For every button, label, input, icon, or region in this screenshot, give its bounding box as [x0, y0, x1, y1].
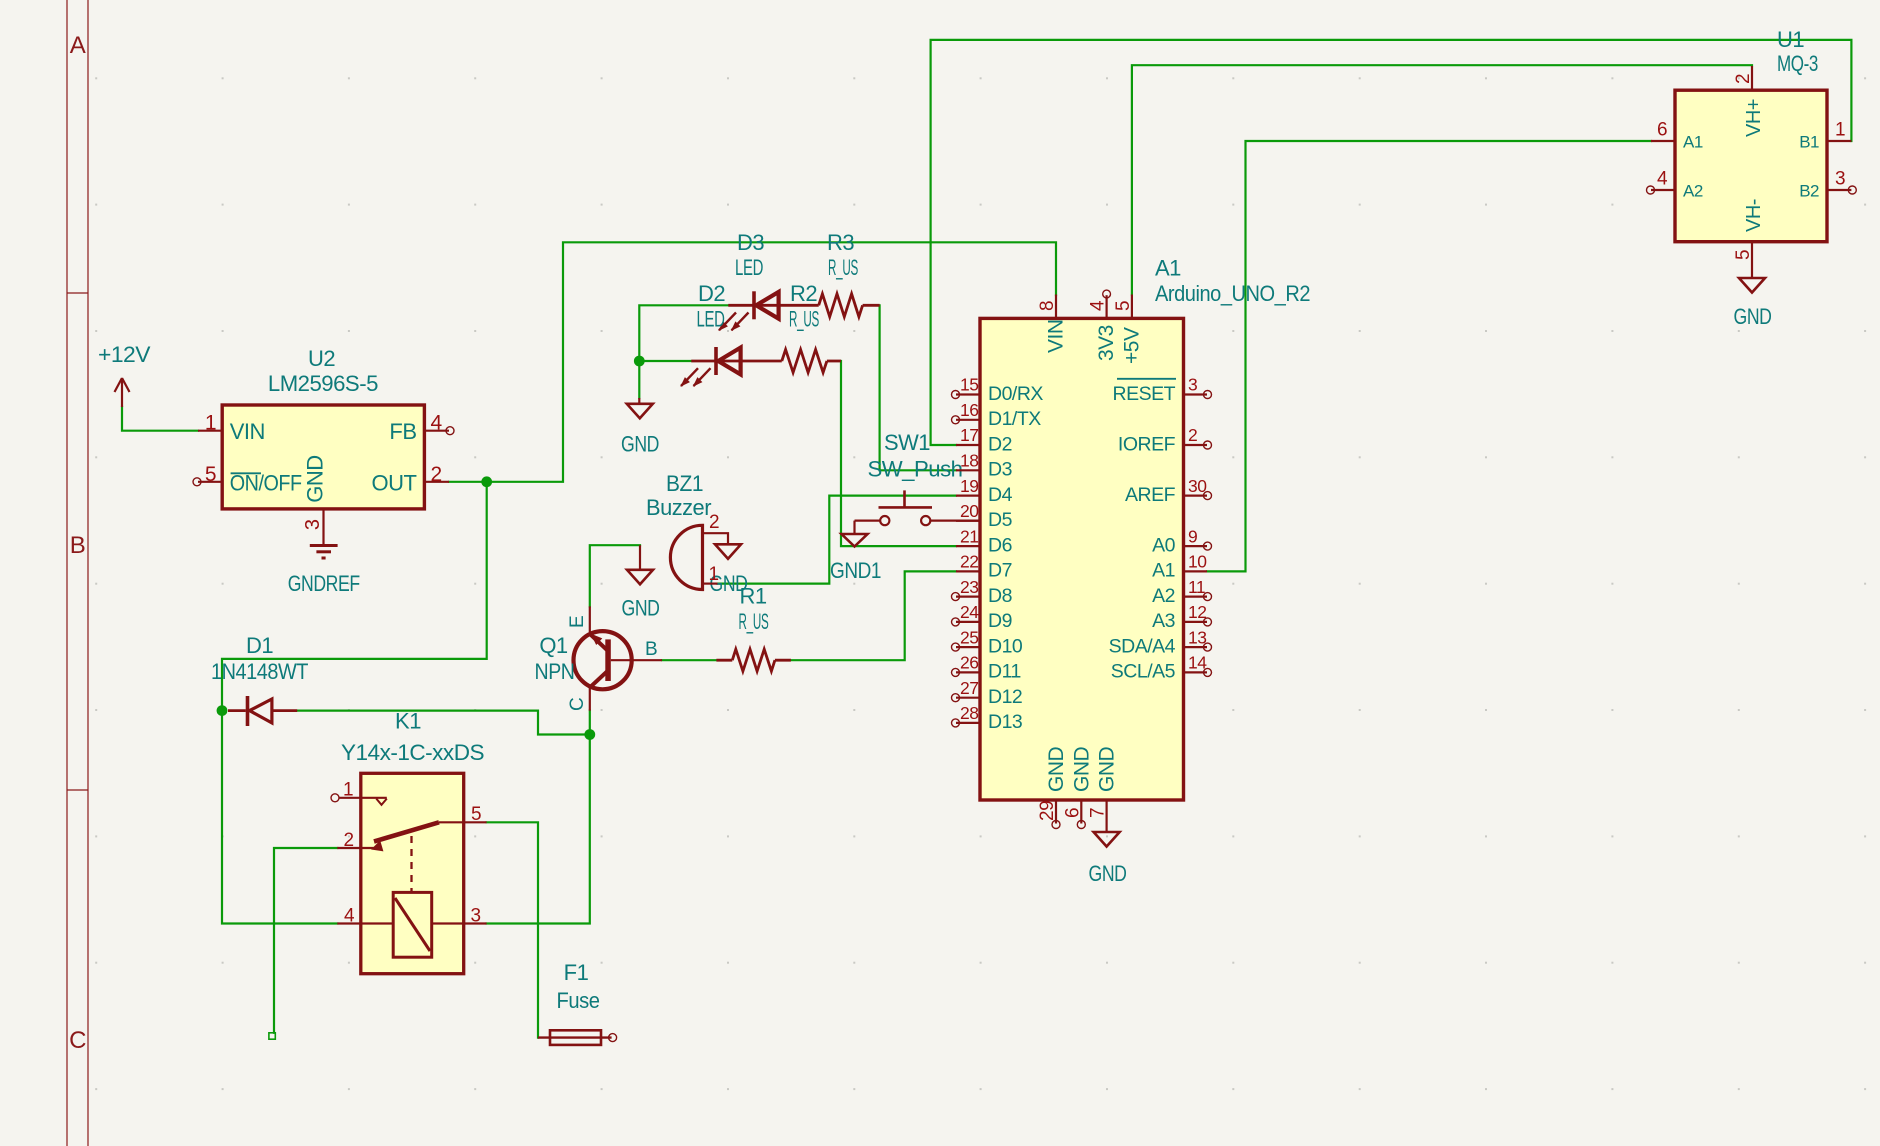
- Arduino pin 26 D11: [952, 653, 1021, 683]
- BZ1 pin 2 to ground: [703, 512, 729, 544]
- ground GND at Q1 emitter: [622, 545, 660, 620]
- svg-text:GNDREF: GNDREF: [288, 571, 360, 596]
- svg-text:2: 2: [343, 830, 353, 851]
- svg-text:D4: D4: [988, 484, 1013, 506]
- svg-text:NPN: NPN: [535, 659, 575, 684]
- Arduino pin 9 A0: [1152, 526, 1211, 556]
- K1 pin 2 + armature lever: [337, 822, 439, 892]
- svg-text:4: 4: [431, 412, 443, 435]
- svg-text:U2: U2: [308, 346, 335, 371]
- switch SW1 SW_Push: [855, 430, 981, 525]
- K1 pin 1: [331, 780, 387, 805]
- wire LED D2 row left: [639, 360, 691, 362]
- wire Q1 base to R1: [662, 659, 716, 661]
- Arduino pin 4 3V3 top: [1088, 290, 1118, 361]
- svg-text:14: 14: [1188, 653, 1207, 673]
- svg-text:SW1: SW1: [884, 430, 930, 455]
- svg-text:30: 30: [1188, 476, 1207, 496]
- wire R2 to Arduino D6: [841, 361, 956, 546]
- svg-text:1: 1: [1835, 120, 1845, 141]
- svg-text:A1: A1: [1152, 560, 1175, 582]
- svg-text:VIN: VIN: [1045, 319, 1068, 353]
- svg-text:K1: K1: [395, 709, 421, 734]
- Arduino pin 10 A1: [1152, 552, 1207, 582]
- svg-text:28: 28: [960, 703, 978, 723]
- svg-text:2: 2: [709, 512, 719, 533]
- svg-text:12: 12: [1188, 602, 1206, 622]
- svg-text:24: 24: [960, 602, 979, 622]
- wire relay pin 2 stub (dangling): [269, 848, 337, 1039]
- svg-text:25: 25: [960, 627, 978, 647]
- svg-text:A: A: [70, 32, 86, 59]
- svg-text:D5: D5: [988, 509, 1013, 531]
- junction at Q1 collector node: [584, 729, 595, 740]
- svg-text:D3: D3: [988, 459, 1012, 481]
- svg-text:3: 3: [470, 906, 480, 927]
- U2 pin 5 ON/OFF: [193, 463, 302, 496]
- svg-text:5: 5: [205, 463, 216, 486]
- MQ-3 pin 5 VH- bottom: [1733, 199, 1765, 260]
- svg-text:22: 22: [960, 552, 978, 572]
- svg-text:3: 3: [1835, 169, 1845, 190]
- svg-text:15: 15: [960, 375, 978, 395]
- regulator U2 LM2596S-5: [222, 346, 424, 509]
- Arduino pin 13 SDA/A4: [1109, 627, 1212, 657]
- MQ-3 pin 6 A1: [1651, 120, 1703, 152]
- svg-text:C: C: [567, 698, 588, 711]
- Arduino pin 27 D12: [952, 678, 1023, 708]
- svg-text:GND: GND: [1045, 747, 1068, 793]
- svg-text:3: 3: [302, 519, 324, 530]
- svg-text:SW_Push: SW_Push: [868, 457, 963, 482]
- MQ-3 pin 2 VH+ top: [1733, 66, 1765, 137]
- svg-text:B: B: [70, 532, 86, 559]
- Arduino pin 12 A3: [1152, 602, 1211, 632]
- svg-text:D1/TX: D1/TX: [988, 408, 1041, 430]
- svg-text:Fuse: Fuse: [557, 988, 600, 1013]
- Arduino pin 16 D1/TX: [952, 400, 1042, 430]
- svg-text:19: 19: [960, 476, 978, 496]
- Arduino pin 15 D0/RX: [952, 375, 1044, 405]
- Arduino pin 30 AREF: [1125, 476, 1212, 506]
- svg-text:6: 6: [1062, 808, 1083, 818]
- Arduino pin 21 D6: [956, 526, 1012, 556]
- relay K1 Y14x-1C-xxDS: [341, 709, 484, 974]
- svg-text:A0: A0: [1152, 534, 1176, 556]
- Arduino pin 3 RESET: [1112, 375, 1211, 405]
- wire R1 to Arduino D7: [791, 571, 956, 660]
- svg-text:B1: B1: [1799, 133, 1819, 152]
- U2 pin 2 OUT: [372, 463, 449, 496]
- svg-text:VIN: VIN: [230, 419, 265, 444]
- transistor Q1 NPN: [535, 606, 663, 711]
- K1 pin 4: [337, 906, 393, 927]
- U2 pin 3 GND: [302, 455, 328, 530]
- svg-text:D10: D10: [988, 635, 1023, 657]
- svg-text:A2: A2: [1152, 585, 1175, 607]
- wire U2 OUT to Arduino VIN pin 8: [449, 242, 1056, 481]
- svg-text:VH-: VH-: [1743, 199, 1765, 232]
- K1 coil: [393, 892, 432, 957]
- svg-text:5: 5: [471, 804, 481, 825]
- svg-text:D3: D3: [737, 230, 764, 255]
- svg-text:4: 4: [344, 906, 355, 927]
- svg-text:BZ1: BZ1: [666, 471, 703, 496]
- svg-text:R2: R2: [790, 281, 817, 306]
- svg-text:1: 1: [205, 412, 216, 435]
- power symbol GNDREF under U2: [288, 509, 360, 596]
- svg-text:A2: A2: [1683, 182, 1703, 201]
- wire OUT junction down-left to relay pin 4: [222, 482, 487, 924]
- svg-text:9: 9: [1188, 526, 1197, 546]
- U2 pin 4 FB: [389, 412, 454, 445]
- ground GND under MQ-3 pin 5: [1734, 242, 1772, 329]
- Arduino pin 7 GND bottom: [1088, 747, 1119, 819]
- svg-text:R_US: R_US: [828, 255, 858, 280]
- ground GND under LED rail: [621, 398, 659, 457]
- Arduino pin 17 D2: [956, 425, 1012, 455]
- Arduino pin 14 SCL/A5: [1111, 653, 1212, 683]
- wire D1 anode to Q1 collector: [297, 711, 590, 735]
- svg-text:R3: R3: [827, 230, 854, 255]
- svg-text:MQ-3: MQ-3: [1777, 51, 1818, 76]
- K1 pin 3: [432, 906, 487, 927]
- svg-text:GND: GND: [1734, 304, 1772, 329]
- svg-text:5: 5: [1733, 250, 1754, 260]
- svg-text:D8: D8: [988, 585, 1012, 607]
- resistor R3 R_US: [779, 230, 880, 317]
- svg-text:GND: GND: [621, 432, 659, 457]
- svg-text:B: B: [645, 639, 657, 660]
- MQ-3 pin 3 B2: [1799, 169, 1856, 201]
- Arduino pin 8 VIN top: [1037, 295, 1068, 354]
- Arduino pin 11 A2: [1152, 577, 1211, 607]
- power symbol +12V: [98, 342, 151, 407]
- fuse F1: [538, 960, 617, 1045]
- svg-text:RESET: RESET: [1112, 383, 1175, 405]
- svg-text:R_US: R_US: [789, 307, 819, 332]
- svg-text:D6: D6: [988, 534, 1012, 556]
- svg-text:D2: D2: [698, 281, 725, 306]
- svg-text:Arduino_UNO_R2: Arduino_UNO_R2: [1155, 281, 1310, 306]
- svg-text:E: E: [567, 616, 588, 628]
- ground GND under Arduino pin 7: [1089, 800, 1127, 886]
- svg-text:AREF: AREF: [1125, 484, 1176, 506]
- Arduino pin 19 D4: [956, 476, 1013, 506]
- svg-text:D0/RX: D0/RX: [988, 383, 1043, 405]
- svg-text:GND: GND: [622, 596, 660, 621]
- MQ-3 pin 1 B1: [1799, 120, 1851, 152]
- LED D3: [718, 230, 780, 331]
- svg-text:5: 5: [1113, 301, 1134, 311]
- svg-text:29: 29: [1037, 801, 1058, 821]
- diode D1 1N4148WT: [211, 633, 308, 726]
- Arduino pin 29 GND bottom: [1037, 747, 1068, 829]
- svg-text:1: 1: [343, 780, 353, 801]
- Arduino pin 18 D3: [956, 451, 1012, 481]
- svg-text:R_US: R_US: [739, 609, 769, 634]
- svg-text:1: 1: [708, 564, 718, 585]
- svg-text:R1: R1: [739, 584, 766, 609]
- U2 pin 1 VIN: [198, 412, 265, 445]
- resistor R1 R_US: [716, 584, 791, 672]
- svg-text:11: 11: [1188, 577, 1205, 597]
- svg-text:26: 26: [960, 653, 978, 673]
- MQ-3 pin 4 A2: [1647, 169, 1703, 201]
- Arduino A1 Arduino_UNO_R2: [980, 256, 1310, 801]
- Arduino pin 23 D8: [952, 577, 1012, 607]
- Arduino pin 28 D13: [952, 703, 1023, 733]
- svg-text:16: 16: [960, 400, 978, 420]
- svg-text:U1: U1: [1777, 27, 1804, 52]
- svg-text:A1: A1: [1683, 133, 1703, 152]
- Arduino pin 24 D9: [952, 602, 1012, 632]
- svg-text:GND: GND: [303, 455, 328, 502]
- wire R3 to Arduino D3: [880, 305, 956, 470]
- svg-text:Buzzer: Buzzer: [646, 495, 711, 520]
- svg-text:2: 2: [431, 463, 442, 486]
- svg-text:7: 7: [1088, 808, 1109, 818]
- wire MQ-3 B1 to Arduino D2: [931, 40, 1852, 445]
- svg-text:SCL/A5: SCL/A5: [1111, 661, 1176, 683]
- svg-text:4: 4: [1657, 169, 1668, 190]
- Arduino pin 25 D10: [952, 627, 1023, 657]
- svg-text:D13: D13: [988, 711, 1022, 733]
- svg-text:FB: FB: [389, 419, 416, 444]
- svg-text:D7: D7: [988, 560, 1012, 582]
- svg-text:GND: GND: [1096, 747, 1119, 793]
- svg-text:LM2596S-5: LM2596S-5: [268, 371, 378, 396]
- resistor R2 R_US: [741, 281, 841, 373]
- svg-text:C: C: [69, 1027, 86, 1054]
- svg-text:D2: D2: [988, 433, 1012, 455]
- svg-text:18: 18: [960, 451, 978, 471]
- svg-text:D1: D1: [246, 633, 273, 658]
- sheet border frame: [67, 0, 88, 1146]
- svg-text:VH+: VH+: [1743, 99, 1765, 137]
- buzzer BZ1: [646, 471, 711, 590]
- svg-text:3: 3: [1188, 375, 1197, 395]
- svg-text:23: 23: [960, 577, 978, 597]
- svg-text:20: 20: [960, 501, 979, 521]
- svg-text:LED: LED: [697, 307, 725, 332]
- wire Q1 collector to relay pin 3: [487, 711, 590, 924]
- wire LED D3 row left: [639, 305, 728, 398]
- Arduino pin 5 +5V top: [1113, 295, 1143, 365]
- svg-text:2: 2: [1733, 74, 1754, 84]
- BZ1 pin 1: [703, 564, 719, 585]
- svg-text:Y14x-1C-xxDS: Y14x-1C-xxDS: [341, 740, 484, 765]
- svg-text:3V3: 3V3: [1095, 325, 1118, 361]
- svg-text:Q1: Q1: [539, 633, 568, 658]
- svg-text:D9: D9: [988, 610, 1012, 632]
- wire +12V to U2 VIN: [122, 407, 198, 431]
- svg-text:OUT: OUT: [372, 470, 417, 495]
- LED D2: [680, 281, 742, 387]
- svg-text:+12V: +12V: [98, 342, 151, 367]
- svg-text:10: 10: [1188, 552, 1207, 572]
- svg-text:A1: A1: [1155, 256, 1181, 281]
- junction at D1 cathode node: [217, 705, 228, 716]
- svg-text:IOREF: IOREF: [1118, 433, 1176, 455]
- svg-text:2: 2: [1188, 425, 1197, 445]
- svg-text:8: 8: [1037, 301, 1058, 311]
- svg-text:13: 13: [1188, 627, 1206, 647]
- svg-text:B2: B2: [1799, 182, 1819, 201]
- power symbol GND1 at SW1: [830, 521, 881, 583]
- svg-text:D12: D12: [988, 686, 1022, 708]
- wire MQ-3 A1 to Arduino A1: [1207, 141, 1651, 571]
- ground GND at buzzer pin 2: [710, 544, 748, 596]
- svg-text:6: 6: [1657, 120, 1667, 141]
- svg-text:+5V: +5V: [1120, 327, 1143, 364]
- wire Arduino +5V to MQ-3 VH+ pin 2: [1132, 65, 1752, 294]
- Arduino pin 22 D7: [956, 552, 1012, 582]
- svg-text:1N4148WT: 1N4148WT: [211, 659, 308, 684]
- wire buzzer pin 1 to Arduino D4: [718, 496, 957, 584]
- svg-text:D11: D11: [988, 661, 1021, 683]
- Arduino pin 6 GND bottom: [1062, 747, 1093, 829]
- svg-text:17: 17: [960, 425, 978, 445]
- svg-text:LED: LED: [735, 255, 763, 280]
- junction at LED GND node: [634, 356, 645, 367]
- svg-text:21: 21: [960, 526, 978, 546]
- junction at U2 OUT: [481, 476, 492, 487]
- svg-text:GND: GND: [1070, 747, 1093, 793]
- Arduino pin 2 IOREF: [1118, 425, 1212, 455]
- svg-text:SDA/A4: SDA/A4: [1109, 635, 1176, 657]
- svg-text:F1: F1: [564, 960, 589, 985]
- gas sensor U1 MQ-3: [1675, 27, 1827, 242]
- wire relay pin 5 to fuse F1: [487, 822, 538, 1037]
- svg-text:GND: GND: [1089, 861, 1127, 886]
- K1 pin 5: [439, 804, 487, 825]
- svg-text:GND1: GND1: [830, 558, 881, 583]
- svg-text:27: 27: [960, 678, 978, 698]
- svg-text:A3: A3: [1152, 610, 1175, 632]
- svg-text:4: 4: [1088, 300, 1109, 311]
- wire Q1 emitter to GND: [590, 545, 640, 606]
- Arduino pin 20 D5: [956, 501, 1013, 531]
